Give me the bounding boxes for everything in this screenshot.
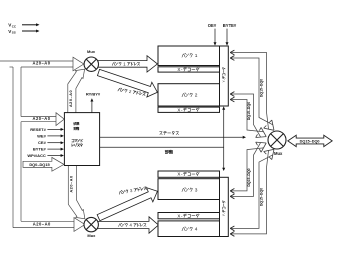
svg-text:X: X xyxy=(177,213,180,218)
svg-text:X: X xyxy=(177,107,180,112)
svg-text:Mux: Mux xyxy=(274,151,283,156)
svg-text:X: X xyxy=(177,172,180,177)
svg-text:CE#: CE# xyxy=(38,140,47,145)
svg-text:BYTE#: BYTE# xyxy=(223,23,237,28)
svg-text:X: X xyxy=(177,67,180,72)
svg-text:4: 4 xyxy=(195,227,198,233)
svg-text:DQ15–DQ0: DQ15–DQ0 xyxy=(300,139,320,143)
svg-text:A20–A0: A20–A0 xyxy=(68,90,73,107)
svg-text:DQ15–DQ0: DQ15–DQ0 xyxy=(260,188,264,206)
svg-text:OE#: OE# xyxy=(208,23,217,28)
svg-text:DQ15–DQ0: DQ15–DQ0 xyxy=(247,168,251,186)
svg-text:-: - xyxy=(222,79,226,80)
svg-text:3: 3 xyxy=(195,187,198,193)
svg-text:WP#/ACC: WP#/ACC xyxy=(27,153,46,158)
svg-text:-: - xyxy=(222,213,226,214)
svg-text:A20–A0: A20–A0 xyxy=(68,175,73,192)
svg-text:Mux: Mux xyxy=(87,49,96,54)
svg-text:RY/BY#: RY/BY# xyxy=(86,92,101,97)
svg-text:WE#: WE# xyxy=(37,133,46,138)
svg-text:DQ15–DQ0: DQ15–DQ0 xyxy=(247,102,251,120)
svg-text:RESET#: RESET# xyxy=(30,127,46,132)
svg-text:1: 1 xyxy=(195,53,198,59)
svg-text:Mux: Mux xyxy=(87,233,96,238)
svg-text:A20–A0: A20–A0 xyxy=(32,61,50,66)
svg-text:2: 2 xyxy=(195,93,198,99)
svg-text:DQ0–DQ15: DQ0–DQ15 xyxy=(29,162,50,167)
svg-text:DQ15–DQ0: DQ15–DQ0 xyxy=(260,79,264,97)
svg-text:SS: SS xyxy=(12,31,16,35)
svg-text:A20–A0: A20–A0 xyxy=(32,116,50,121)
svg-text:BYTE#: BYTE# xyxy=(33,147,47,152)
svg-text:A20–A0: A20–A0 xyxy=(33,222,51,227)
